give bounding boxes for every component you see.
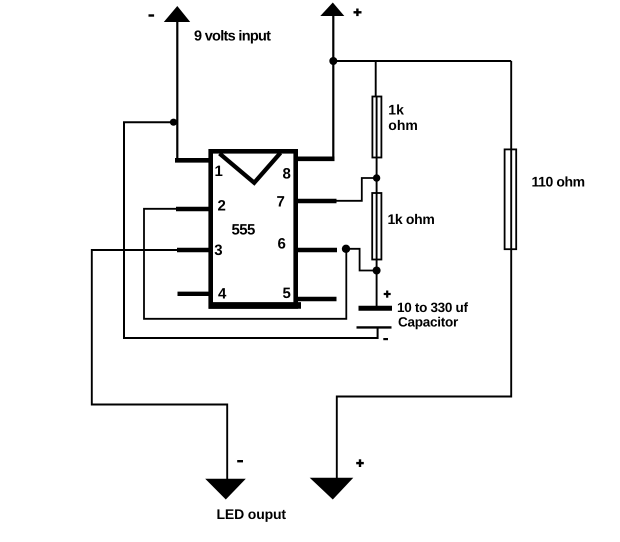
battery minus terminal arrow	[164, 6, 190, 22]
svg-text:1: 1	[215, 163, 223, 180]
capacitor C1 minus plate	[357, 326, 392, 328]
plus label (LED output)	[356, 462, 364, 464]
resistor R3 110 ohm body	[505, 149, 517, 249]
wire pin6 to pin2	[144, 209, 346, 319]
svg-text:1k ohm: 1k ohm	[388, 211, 435, 227]
svg-text:ohm: ohm	[388, 117, 418, 133]
LED output minus arrow	[205, 479, 246, 500]
resistor R3 lead through	[510, 61, 512, 249]
pin 4 stub	[178, 292, 210, 296]
pin 6 stub	[297, 248, 337, 253]
IC bottom border thick stroke	[209, 302, 301, 309]
pin 2 stub	[176, 207, 213, 212]
svg-text:5: 5	[283, 285, 291, 302]
node V+ junction dot	[329, 57, 337, 65]
wire step pin6 to R2 bottom	[346, 249, 377, 271]
node R1/R2/pin7 junction dot	[373, 174, 380, 181]
LED output plus arrow	[310, 478, 354, 500]
svg-text:Capacitor: Capacitor	[398, 314, 459, 329]
pin 7 stub	[297, 199, 337, 204]
node minus rail junction dot	[170, 119, 177, 126]
pin 3 stub	[177, 248, 213, 253]
wire step junction to pin 7	[336, 178, 377, 201]
wire V+ rail to 110 ohm	[333, 60, 511, 62]
wire capacitor minus to ground rail to minus node	[124, 122, 378, 338]
node pin6 junction dot	[342, 245, 350, 253]
wire branch to R1 top	[375, 61, 377, 98]
svg-text:9 volts input: 9 volts input	[194, 29, 271, 45]
svg-text:555: 555	[232, 221, 255, 238]
svg-text:6: 6	[278, 236, 286, 253]
svg-text:LED ouput: LED ouput	[217, 506, 287, 522]
wire pin 3 to LED minus	[92, 250, 227, 480]
capacitor C1 plus plate	[359, 306, 393, 311]
IC notch V	[220, 153, 281, 183]
wire 110 ohm bottom to LED plus	[337, 249, 511, 480]
battery plus terminal arrow	[320, 3, 344, 17]
svg-text:110 ohm: 110 ohm	[532, 174, 585, 190]
wire R2 bottom to capacitor plus	[376, 271, 378, 308]
wire plus arrow down to pin 8	[332, 14, 334, 159]
resistor R1 1k body	[372, 97, 381, 158]
plus label (capacitor)	[384, 293, 391, 295]
svg-text:1k: 1k	[388, 101, 404, 117]
svg-text:10 to 330 uf: 10 to 330 uf	[397, 300, 468, 315]
node R2 bottom junction dot	[373, 267, 381, 275]
pin 1 stub	[175, 158, 213, 163]
wire minus arrow to IC pin1 rail	[176, 20, 178, 160]
resistor R1 lead through	[376, 97, 378, 179]
minus label (capacitor)	[383, 338, 388, 340]
svg-text:4: 4	[218, 286, 227, 303]
svg-text:2: 2	[218, 198, 226, 215]
svg-text:3: 3	[214, 242, 222, 259]
svg-text:8: 8	[283, 166, 291, 183]
minus label (LED output)	[237, 460, 243, 462]
svg-text:7: 7	[277, 194, 285, 211]
resistor R2 lead through	[376, 178, 378, 271]
minus label (9V input)	[149, 14, 155, 16]
pin 5 stub	[297, 297, 337, 302]
resistor R2 1k body	[372, 193, 381, 260]
op-amp / IC U1 555 body	[211, 151, 296, 306]
pin 8 stub	[295, 157, 335, 162]
plus label (9V input)	[354, 11, 362, 13]
